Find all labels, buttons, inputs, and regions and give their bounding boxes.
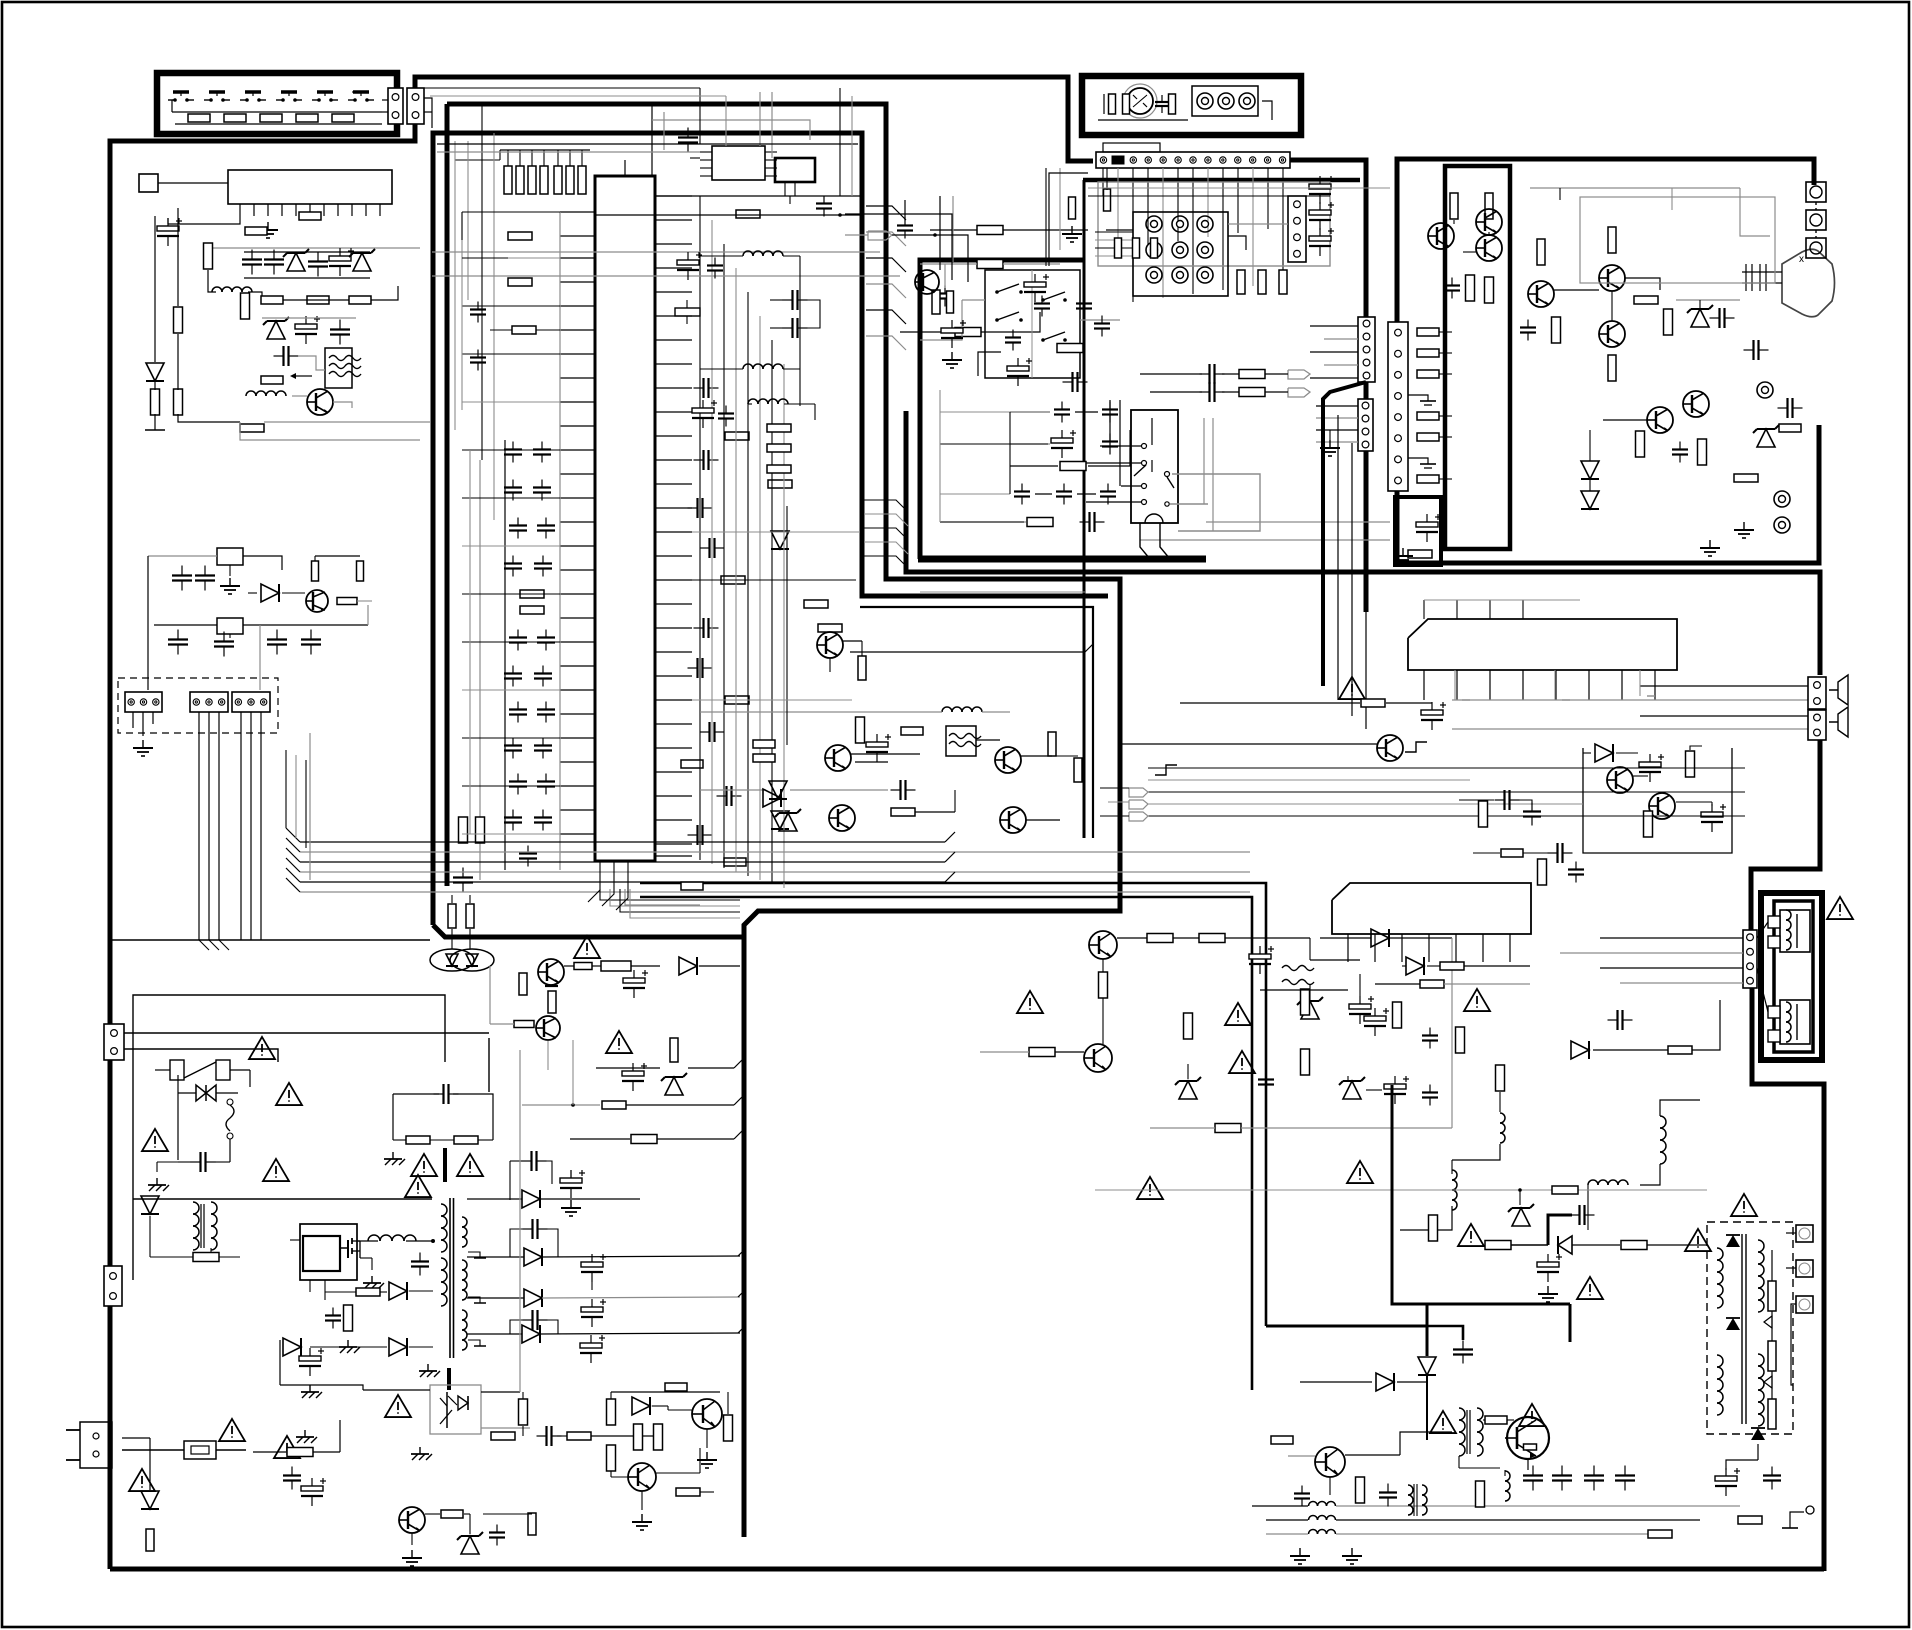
gnd c812 bbox=[570, 1200, 572, 1208]
wire R306 up bbox=[581, 150, 583, 166]
U201 right pin 7 wire bbox=[655, 339, 692, 341]
crt Q606 bbox=[1599, 321, 1625, 347]
capacitor C222 bbox=[688, 834, 698, 836]
wire R303 up bbox=[543, 150, 545, 166]
speaker terminal sq3 bbox=[1768, 1006, 1780, 1018]
capacitor C210 bbox=[512, 666, 514, 674]
wire 1162 bbox=[178, 1161, 191, 1163]
crt Q608 bbox=[1683, 391, 1709, 417]
T802 chassis bbox=[427, 1364, 429, 1371]
wire q204 bbox=[1021, 755, 1052, 757]
top center drops bbox=[699, 88, 701, 144]
crt cap C604 bbox=[1679, 442, 1681, 450]
bottom bus coil 2 bbox=[1309, 1516, 1318, 1521]
crt neck lines bbox=[1742, 271, 1782, 273]
adjust hole 02 bbox=[1197, 216, 1213, 232]
audio long bus bbox=[1148, 767, 1745, 769]
wire q503 row bbox=[1120, 743, 1377, 745]
curly wire bbox=[227, 1099, 233, 1105]
IC U302 small bbox=[775, 158, 815, 182]
drop wire D5 bbox=[759, 316, 761, 880]
rf jack 2 bbox=[1806, 210, 1826, 230]
bleeder arrows bbox=[1764, 1316, 1772, 1328]
bottom bus coil 1 bbox=[1309, 1502, 1318, 1507]
crt grounds bbox=[1743, 522, 1745, 530]
crt res R612 bbox=[1466, 275, 1475, 301]
switch S1 bbox=[168, 99, 175, 101]
capacitor C108 bbox=[274, 355, 284, 357]
U201 left pin 1 wire bbox=[560, 211, 595, 213]
tuner resistor R402 bbox=[1123, 94, 1130, 114]
snubber res bbox=[1485, 1241, 1511, 1250]
ecap C415 bbox=[1051, 438, 1073, 443]
wire L702 bbox=[1400, 1206, 1452, 1230]
video frame E bbox=[1083, 178, 1360, 183]
wires video mid bbox=[1010, 411, 1050, 413]
crt small block gnd bbox=[1402, 548, 1404, 556]
bp filter FL201 bbox=[946, 726, 976, 756]
long col wire bbox=[786, 506, 788, 745]
video box v wires bbox=[939, 390, 941, 522]
capacitor C419 bbox=[1107, 484, 1109, 492]
T802 left windings bbox=[441, 1204, 447, 1216]
speaker terminal sq1 bbox=[1768, 916, 1780, 928]
speaker terminal sq4 bbox=[1768, 1030, 1780, 1042]
audio mid cluster bbox=[1479, 801, 1488, 827]
transistor Q703 H-out bbox=[1507, 1417, 1549, 1459]
U201 left pin 11 wire bbox=[560, 449, 595, 451]
IC U702 regulator bbox=[1332, 883, 1531, 934]
test point TP1 bbox=[1757, 382, 1773, 398]
wire R300 up bbox=[507, 150, 509, 166]
J14 wires bbox=[1310, 325, 1358, 327]
ecap C701 bbox=[1249, 954, 1271, 959]
AC wire bottom bbox=[124, 1049, 278, 1062]
wire l201 bbox=[700, 711, 942, 713]
U702 pin 7 bbox=[1509, 934, 1511, 962]
U201 under-IC chamfers bbox=[588, 861, 600, 902]
video to crt wires bbox=[1206, 521, 1390, 523]
resistor R207 bbox=[725, 432, 749, 440]
crt top wires bbox=[1530, 187, 1740, 189]
sec rect D4 bbox=[522, 1325, 540, 1343]
resistor R115 bbox=[261, 296, 283, 304]
wires across below video box bbox=[920, 591, 1085, 593]
AV jack plate bbox=[1192, 86, 1258, 116]
bus left chamfer bbox=[286, 828, 300, 842]
U201 upper-left wires bbox=[461, 212, 463, 240]
switch arm 4 bbox=[1043, 332, 1065, 340]
cap C811 bbox=[522, 1160, 532, 1162]
crt wire2 bbox=[1554, 289, 1599, 291]
step glyph 1 bbox=[1155, 765, 1177, 775]
gnd 805 bbox=[411, 1550, 413, 1558]
IF transformer T101 bbox=[325, 348, 352, 388]
video block left edge bbox=[920, 260, 1083, 559]
resistor R117 bbox=[349, 296, 371, 304]
hp contact 4 bbox=[1142, 484, 1147, 489]
crt pin res R65 bbox=[1417, 433, 1439, 441]
U101 pin 10 bbox=[365, 204, 367, 216]
switch S5 bbox=[312, 99, 319, 101]
gray long wire 2 bbox=[432, 275, 900, 277]
horizontal mid bus wires bbox=[300, 841, 945, 843]
capacitor C414 bbox=[1109, 402, 1111, 410]
coil L703b bbox=[1505, 1471, 1510, 1481]
wire mid cluster bbox=[700, 789, 766, 791]
speaker conn J11 bbox=[1743, 930, 1757, 988]
sec topline bbox=[466, 1199, 468, 1205]
diode D709 bbox=[1376, 1373, 1394, 1391]
connector J15 bbox=[1358, 399, 1373, 451]
coil L102 bbox=[246, 391, 256, 396]
crt cap C601 bbox=[1451, 278, 1453, 286]
crt res R614 bbox=[1537, 239, 1545, 265]
IC U501 audio amplifier bbox=[1408, 619, 1677, 670]
speaker horn 1 bbox=[1829, 675, 1848, 705]
capacitor C209 bbox=[545, 630, 547, 638]
wire J2 stub bbox=[424, 98, 432, 106]
bus wire chamfer 2 bbox=[866, 258, 906, 272]
U201 left long wires bbox=[462, 211, 560, 213]
wire degauss bbox=[451, 929, 453, 949]
zener D705 bbox=[1343, 1081, 1361, 1099]
resistor R201 bbox=[520, 606, 544, 614]
audio pin stubs gray bbox=[1454, 670, 1456, 700]
cap C605 bbox=[1778, 407, 1788, 409]
warn power 3 bbox=[1464, 989, 1490, 1011]
U501 pin 1 bbox=[1423, 670, 1425, 700]
thin bus y1190 bbox=[1095, 1189, 1707, 1191]
crt small block outline bbox=[1395, 497, 1441, 565]
wire L704 bbox=[1660, 1100, 1700, 1116]
ecap C805b bbox=[622, 1071, 644, 1076]
resistor R408 bbox=[932, 290, 940, 314]
cap C807 bbox=[332, 1308, 334, 1316]
kb extra wire bbox=[352, 91, 362, 93]
U201 right pin 25 wire bbox=[655, 771, 692, 773]
wire Q101 base bbox=[292, 395, 307, 397]
main board right frame upper bbox=[1751, 737, 1820, 930]
U201 right pin 5 wire bbox=[655, 291, 692, 293]
zener D601 bbox=[1691, 309, 1709, 327]
diode D802 bbox=[141, 1196, 159, 1214]
harness wire W4 bbox=[240, 712, 242, 940]
res R718 bbox=[1648, 1530, 1672, 1538]
degauss resistors bbox=[448, 904, 456, 928]
U201 left pin 12 wire bbox=[560, 473, 595, 475]
connector J7 bbox=[1288, 196, 1306, 262]
U201 right pin 28 wire bbox=[655, 843, 692, 845]
U801 gnd bbox=[371, 1276, 373, 1283]
wire top chamfer bus 1 bbox=[655, 195, 860, 197]
resistor R311 bbox=[955, 328, 981, 337]
U201 left pin 14 wire bbox=[560, 521, 595, 523]
J15 wires bbox=[1316, 405, 1358, 407]
U702 pin 1 bbox=[1347, 934, 1349, 962]
hp jack arc bbox=[1145, 514, 1163, 523]
main frame right segment bbox=[1290, 160, 1366, 317]
speaker wires bbox=[1600, 937, 1743, 939]
cap C806 bbox=[419, 1253, 421, 1262]
resistor R121 bbox=[174, 389, 183, 415]
capacitor C240 bbox=[477, 302, 479, 310]
capacitor C107 bbox=[339, 320, 341, 330]
capacitor C103 bbox=[273, 250, 275, 260]
resistor R212 bbox=[681, 760, 703, 768]
q805 parts bbox=[441, 1510, 463, 1518]
resistor R112 bbox=[245, 227, 267, 235]
video adjust input wires bbox=[1095, 231, 1133, 233]
U501 pin 5 bbox=[1555, 670, 1557, 700]
wire y214 bbox=[845, 214, 952, 280]
crt pin gnd 6 bbox=[1408, 458, 1428, 464]
wire d808 bbox=[310, 1346, 387, 1348]
res R623 bbox=[1779, 424, 1801, 432]
res R503 bbox=[1361, 699, 1385, 707]
res R826 bbox=[514, 1021, 534, 1028]
res R228 bbox=[804, 600, 828, 608]
step glyph 2 bbox=[1405, 742, 1427, 752]
harness wire W3 bbox=[218, 712, 220, 940]
wire q201 bbox=[843, 640, 862, 642]
drop wire D3 bbox=[735, 268, 737, 872]
net flag row 1 bbox=[1200, 373, 1210, 375]
sec ecap 3 bbox=[581, 1307, 603, 1312]
wire kb to board bbox=[431, 106, 433, 128]
crt pin res R62 bbox=[1417, 370, 1439, 378]
chassis gnd mid bbox=[347, 1340, 349, 1347]
cap C708 bbox=[1427, 1326, 1463, 1340]
capacitor C417 bbox=[1021, 484, 1023, 492]
res R710 bbox=[1420, 980, 1444, 988]
U201 left pin 15 wire bbox=[560, 545, 595, 547]
tuner wires bbox=[1103, 94, 1105, 114]
coil L702 bbox=[1452, 1170, 1457, 1180]
power block medium bus 2 bbox=[640, 897, 1252, 1390]
resistor R405 bbox=[1258, 270, 1266, 294]
audio feed wire 3 bbox=[1351, 443, 1353, 716]
coil L701 bbox=[1500, 1113, 1505, 1123]
capacitor C223 bbox=[694, 387, 704, 389]
harness bottom bus bbox=[112, 939, 430, 941]
gnd U102 bbox=[229, 578, 231, 586]
U201 left pin 6 wire bbox=[560, 329, 595, 331]
U101 pin 5 bbox=[295, 204, 297, 216]
warning triangle audio bbox=[1339, 677, 1365, 699]
cap C707 bbox=[1429, 1085, 1431, 1093]
drop wire D0 bbox=[699, 196, 701, 860]
crt small block res bbox=[1408, 550, 1432, 558]
smps harness right bbox=[279, 1340, 281, 1385]
gray riser x573 bbox=[572, 1040, 574, 1105]
res R804b bbox=[356, 1288, 380, 1296]
capacitor C303 bbox=[904, 218, 906, 226]
crt Q605 bbox=[1599, 265, 1625, 291]
IF unit box bbox=[1098, 182, 1330, 266]
res R806 bbox=[548, 991, 556, 1013]
wire L701 bbox=[1499, 1092, 1501, 1112]
drop wire D1 bbox=[711, 220, 713, 864]
q704 wires bbox=[1288, 1455, 1315, 1457]
res R225 bbox=[767, 424, 791, 432]
resistor R308 bbox=[736, 210, 760, 218]
resistor R220 bbox=[508, 278, 532, 286]
tuner cap C401 bbox=[1161, 95, 1163, 102]
cap C717 bbox=[1608, 1019, 1618, 1021]
res R711 bbox=[1393, 1002, 1402, 1028]
T802 right windings bbox=[462, 1217, 467, 1227]
hp switch inner lines bbox=[1151, 418, 1153, 445]
U201 right pin 18 wire bbox=[655, 603, 692, 605]
resistor R406 bbox=[1279, 270, 1287, 294]
wire standby bbox=[980, 1051, 1029, 1053]
U201 right pin 23 wire bbox=[655, 723, 692, 725]
resistor R310 bbox=[977, 260, 1003, 269]
U201 right pin 8 wire bbox=[655, 363, 692, 365]
switch S4 bbox=[276, 99, 283, 101]
resistor R120 bbox=[174, 307, 183, 333]
video adjust box bbox=[1133, 212, 1228, 296]
sec ecap 4 bbox=[580, 1343, 602, 1348]
fbt bottom wires bbox=[1757, 1444, 1759, 1460]
U201 right pin 17 wire bbox=[655, 579, 692, 581]
main frame right segment 2 bbox=[1364, 382, 1369, 399]
capacitor C406 bbox=[1041, 296, 1043, 304]
chassis gnd 2 bbox=[304, 1430, 306, 1437]
transistor Q503 bbox=[1377, 735, 1403, 761]
capacitor C205 bbox=[545, 518, 547, 526]
capacitor C241 bbox=[477, 350, 479, 358]
opto coupler U802 bbox=[430, 1385, 481, 1434]
wire to frame bbox=[264, 421, 430, 423]
resistor R122 bbox=[240, 424, 264, 432]
wire 1190 stub bbox=[1519, 1190, 1521, 1205]
ground U101 pin3 bbox=[267, 222, 269, 230]
connector J14 bbox=[1358, 317, 1375, 382]
U101 pin 2 bbox=[253, 204, 255, 216]
wire top left risers2 bbox=[481, 104, 483, 460]
IC U201 main processor (tall) bbox=[595, 176, 655, 861]
U801 wires bbox=[309, 1280, 311, 1292]
U301 pin l1 bbox=[700, 159, 712, 161]
crt wire bbox=[1453, 220, 1455, 224]
adjust hole 21 bbox=[1172, 267, 1188, 283]
U301 pin l3 bbox=[700, 175, 712, 177]
transistor Q803 bbox=[692, 1399, 722, 1429]
U201 left pin 10 wire bbox=[560, 425, 595, 427]
jack dashes bbox=[1815, 202, 1817, 210]
AC connector J12 bbox=[104, 1024, 124, 1060]
resistor R302 bbox=[528, 166, 536, 194]
cap C802 bbox=[291, 1467, 293, 1476]
crt cap C602 bbox=[1527, 320, 1529, 328]
main frame right segment 3 bbox=[1364, 451, 1369, 612]
sec rect D2 bbox=[524, 1248, 542, 1266]
wire u702 base bbox=[1260, 989, 1348, 991]
wavy isolation 1 bbox=[1282, 966, 1314, 971]
audio sub box bbox=[1583, 748, 1732, 853]
AC wire top bbox=[124, 1032, 489, 1034]
U201 right pin 29 wire bbox=[655, 855, 692, 857]
capacitor C203 bbox=[541, 480, 543, 488]
diode D203 bbox=[769, 781, 787, 799]
frame bus B top bbox=[447, 104, 1120, 1537]
wire q801 bbox=[564, 965, 574, 967]
keyboard board outline bbox=[157, 73, 397, 134]
pin strip J6 bbox=[1096, 152, 1290, 168]
crt diode D602 bbox=[1581, 461, 1599, 479]
crt pin res R60 bbox=[1417, 328, 1439, 336]
staircase wire 3 bbox=[864, 542, 908, 554]
crt cap C606 bbox=[1744, 349, 1754, 351]
U201 right pin 14 wire bbox=[655, 507, 692, 509]
gnd r411 bbox=[1071, 226, 1073, 234]
speaker terminal sq2 bbox=[1768, 936, 1780, 948]
zener D102 bbox=[353, 253, 371, 271]
video block bottom heavy bus bbox=[918, 556, 1206, 563]
crt gray box bbox=[1580, 197, 1775, 283]
cap C603 bbox=[1710, 317, 1720, 319]
resistor R409 bbox=[1057, 344, 1083, 353]
coil L203 bbox=[743, 251, 753, 256]
warn power 1 bbox=[1137, 1177, 1163, 1199]
resistor R111 bbox=[299, 212, 321, 220]
coil L801 bbox=[368, 1235, 380, 1241]
wire L801 bbox=[357, 1240, 378, 1242]
long wire 625 bbox=[154, 624, 217, 626]
drop wire D2 bbox=[723, 244, 725, 868]
connector J3 bbox=[125, 692, 162, 712]
transformer T702 small bbox=[1408, 1485, 1413, 1495]
wire spk low bbox=[1593, 1049, 1668, 1051]
crt res R619 bbox=[1664, 309, 1673, 335]
cap C801 bbox=[191, 1161, 201, 1163]
harness wire W5 bbox=[250, 712, 252, 940]
U501 pin 7 bbox=[1621, 670, 1623, 700]
crt Q607 bbox=[1647, 407, 1673, 433]
capacitor C302 bbox=[823, 196, 825, 204]
crt Q603 bbox=[1476, 235, 1502, 261]
fb res R819 bbox=[634, 1424, 643, 1450]
main board bottom frame bbox=[110, 1567, 1824, 1572]
zener D703 bbox=[1179, 1081, 1197, 1099]
Q701 bbox=[1089, 931, 1117, 959]
warn snubber bbox=[411, 1154, 437, 1176]
capacitor C111 bbox=[204, 566, 206, 576]
coil L201 bbox=[942, 707, 952, 712]
capacitor C218 bbox=[512, 810, 514, 818]
wire hrz 264 bbox=[920, 263, 977, 265]
diode D105 bbox=[261, 584, 279, 602]
crt res R621 bbox=[1698, 439, 1707, 465]
crt connector J10 bbox=[1388, 322, 1408, 491]
capacitor C219 bbox=[542, 810, 544, 818]
crt res R615 bbox=[1552, 317, 1561, 343]
U201 right pin 3 wire bbox=[655, 243, 692, 245]
IF box resistors bbox=[1115, 238, 1122, 258]
capacitor C405 bbox=[941, 328, 963, 333]
bleeder resistor chain bbox=[1768, 1281, 1776, 1311]
res R709 bbox=[1440, 962, 1464, 970]
res R410b bbox=[947, 291, 954, 313]
wire U101 pin1 down bbox=[168, 216, 240, 224]
wire mid bbox=[262, 317, 356, 319]
U201 left pin 28 wire bbox=[560, 851, 595, 853]
res R808 bbox=[631, 1135, 657, 1144]
U301 pin l2 bbox=[700, 167, 712, 169]
capacitor C216 bbox=[517, 774, 519, 782]
